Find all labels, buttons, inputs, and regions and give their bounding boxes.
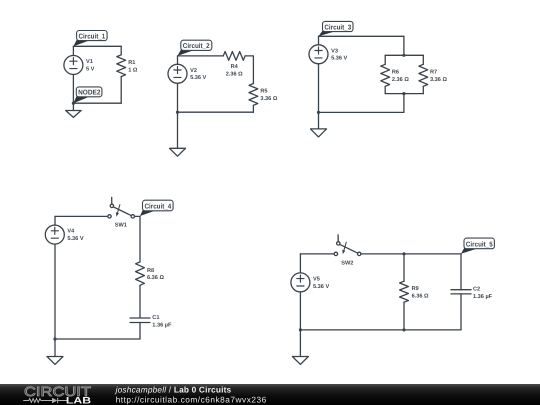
wire left top C3 bbox=[318, 36, 320, 45]
resistor R8 bbox=[136, 262, 145, 285]
resistor R6 bbox=[381, 64, 390, 86]
svg-text:LAB: LAB bbox=[66, 394, 91, 405]
svg-text:Circuit_3: Circuit_3 bbox=[324, 23, 351, 31]
ground C5 bbox=[292, 330, 308, 365]
svg-text:Circuit_2: Circuit_2 bbox=[183, 42, 210, 50]
wire top left C5 bbox=[300, 253, 334, 255]
svg-text:6.36 Ω: 6.36 Ω bbox=[412, 294, 429, 300]
wire right top C1 bbox=[120, 46, 122, 55]
svg-text:R1: R1 bbox=[128, 60, 135, 66]
svg-text:R8: R8 bbox=[147, 268, 154, 274]
wire left top C4 bbox=[54, 216, 56, 225]
flag NODE2 bbox=[73, 87, 102, 103]
svg-text:2.36 Ω: 2.36 Ω bbox=[226, 71, 243, 77]
ground C2 bbox=[170, 112, 186, 156]
node C2 bottom-left junction bbox=[176, 111, 179, 114]
wire right bottom C2 bbox=[252, 105, 254, 112]
svg-text:SW1: SW1 bbox=[115, 223, 127, 229]
wire R6 bottom lead bbox=[384, 86, 386, 93]
flags bbox=[73, 21, 494, 253]
svg-text:V2: V2 bbox=[190, 68, 197, 74]
wire bottom C3 bbox=[319, 111, 404, 113]
svg-text:5.36 V: 5.36 V bbox=[190, 75, 206, 81]
svg-text:1 Ω: 1 Ω bbox=[128, 67, 138, 73]
svg-text:NODE2: NODE2 bbox=[78, 90, 100, 97]
wire left top C1 bbox=[72, 46, 74, 55]
wire C1 to bottom bbox=[139, 323, 141, 340]
ground C4 bbox=[47, 339, 63, 364]
svg-text:5.36 V: 5.36 V bbox=[67, 236, 83, 242]
flag Circuit_4 bbox=[140, 200, 173, 216]
resistor R4 bbox=[223, 52, 245, 61]
wire top right C5 bbox=[404, 253, 461, 255]
node C5 top junction bbox=[402, 252, 405, 255]
resistor R7 bbox=[419, 64, 428, 86]
wire right drop C5 bbox=[460, 254, 462, 290]
resistor R9 bbox=[400, 281, 409, 302]
wire right bottom C1 bbox=[120, 77, 122, 104]
svg-text:V4: V4 bbox=[67, 229, 75, 235]
voltage source V4 bbox=[45, 225, 64, 244]
wire C3 drop to rail bbox=[403, 36, 405, 55]
switch SW2 bbox=[334, 235, 361, 256]
node C3 bottom-left junction bbox=[317, 111, 320, 114]
svg-text:1.36 µF: 1.36 µF bbox=[473, 294, 493, 300]
logo zigzag resistor and diode bbox=[23, 398, 67, 403]
flag Circuit_1 bbox=[73, 31, 107, 47]
svg-text:Circuit_1: Circuit_1 bbox=[79, 32, 106, 40]
svg-text:6.36 Ω: 6.36 Ω bbox=[147, 275, 164, 281]
svg-text:5 V: 5 V bbox=[86, 66, 95, 72]
wire left bottom C1 bbox=[72, 75, 74, 104]
wire left bottom C4 bbox=[54, 244, 56, 339]
wire C2 to bottom bbox=[460, 294, 462, 330]
wire top right C2 bbox=[245, 56, 253, 84]
ground C3 bbox=[311, 112, 327, 136]
wire R9 bottom lead bbox=[403, 302, 405, 330]
node C1 bottom-left junction bbox=[72, 102, 75, 105]
svg-text:V5: V5 bbox=[313, 276, 320, 282]
node C3 rail bottom junction bbox=[402, 92, 405, 95]
wire top left C4 bbox=[55, 215, 108, 217]
wire left top C5 bbox=[299, 254, 301, 273]
node C5 bottom-left junction bbox=[299, 328, 302, 331]
switch SW1 bbox=[108, 197, 135, 218]
voltage source V3 bbox=[309, 45, 328, 64]
voltage source V1 bbox=[64, 56, 83, 75]
wire R9 top lead bbox=[403, 254, 405, 281]
node C4 bottom-left junction bbox=[53, 337, 56, 340]
svg-text:5.36 V: 5.36 V bbox=[331, 56, 347, 62]
wire right top C4 bbox=[139, 216, 141, 262]
svg-text:joshcampbell / Lab 0 Circuits: joshcampbell / Lab 0 Circuits bbox=[115, 385, 232, 395]
wire R6 top lead bbox=[384, 55, 386, 64]
resistor R5 bbox=[249, 84, 258, 106]
flag Circuit_3 bbox=[319, 21, 354, 36]
svg-text:C2: C2 bbox=[473, 287, 480, 293]
wire C3 top rail bbox=[385, 54, 423, 56]
svg-text:1.36 µF: 1.36 µF bbox=[152, 323, 172, 329]
svg-text:3.36 Ω: 3.36 Ω bbox=[260, 96, 277, 102]
wire SW1 to corner C4 bbox=[135, 215, 141, 217]
svg-text:R7: R7 bbox=[430, 70, 437, 76]
wire R7 bottom lead bbox=[422, 86, 424, 93]
svg-text:SW2: SW2 bbox=[341, 260, 353, 266]
svg-text:Circuit_5: Circuit_5 bbox=[466, 240, 493, 248]
wire top C3 bbox=[319, 35, 404, 37]
flag Circuit_2 bbox=[178, 40, 212, 56]
wire left top C2 bbox=[177, 56, 179, 64]
wire C3 riser bbox=[403, 94, 405, 113]
svg-text:2.36 Ω: 2.36 Ω bbox=[392, 77, 409, 83]
wire bottom C1 bbox=[73, 102, 121, 104]
ground C1 bbox=[66, 103, 81, 117]
wire C3 bottom rail bbox=[385, 93, 423, 95]
wire R8 to C1 bbox=[139, 285, 141, 318]
svg-text:V1: V1 bbox=[86, 59, 93, 65]
wire left bottom C2 bbox=[177, 83, 179, 112]
svg-text:R6: R6 bbox=[392, 70, 399, 76]
wire SW2 to R9 node bbox=[361, 253, 404, 255]
resistor R1 bbox=[117, 55, 126, 77]
svg-text:Circuit_4: Circuit_4 bbox=[145, 202, 172, 210]
wire top left C2 bbox=[178, 55, 224, 57]
footer bar bbox=[0, 384, 540, 405]
wire left bottom C5 bbox=[299, 292, 301, 330]
wire left bottom C3 bbox=[318, 64, 320, 113]
svg-text:R4: R4 bbox=[231, 64, 239, 70]
svg-text:http://circuitlab.com/c6nk8a7w: http://circuitlab.com/c6nk8a7wvx236 bbox=[116, 394, 267, 404]
svg-text:5.36 V: 5.36 V bbox=[313, 284, 329, 290]
wire R7 top lead bbox=[422, 55, 424, 64]
node C5 bottom junction bbox=[402, 328, 405, 331]
svg-text:R9: R9 bbox=[412, 286, 419, 292]
wire top C1 bbox=[73, 45, 121, 47]
wire bottom C5 bbox=[300, 329, 461, 331]
voltage source V2 bbox=[168, 64, 187, 83]
wire bottom C4 bbox=[55, 338, 140, 340]
svg-text:3.36 Ω: 3.36 Ω bbox=[430, 77, 447, 83]
wire bottom C2 bbox=[178, 111, 254, 113]
capacitor C1 bbox=[130, 318, 150, 323]
voltage source V5 bbox=[291, 273, 310, 292]
svg-text:V3: V3 bbox=[331, 48, 338, 54]
svg-text:R5: R5 bbox=[260, 89, 267, 95]
svg-text:C1: C1 bbox=[152, 315, 159, 321]
node C3 rail top junction bbox=[402, 54, 405, 57]
flag Circuit_5 bbox=[461, 238, 494, 254]
capacitor C2 bbox=[451, 290, 471, 294]
